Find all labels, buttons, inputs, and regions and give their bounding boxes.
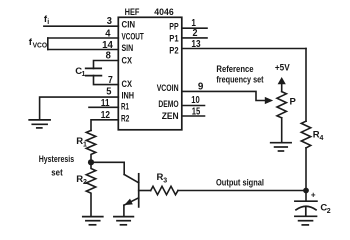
- svg-text:2: 2: [327, 208, 331, 215]
- label C1: [75, 66, 85, 78]
- svg-text:2: 2: [193, 28, 198, 39]
- svg-text:11: 11: [101, 98, 110, 109]
- svg-text:DEMO: DEMO: [158, 98, 178, 109]
- svg-text:7: 7: [108, 75, 113, 86]
- svg-text:P: P: [290, 97, 297, 108]
- svg-text:P2: P2: [169, 44, 178, 55]
- wire R4 to output node: [305, 148, 307, 191]
- svg-text:PP: PP: [169, 20, 178, 31]
- svg-text:VCOUT: VCOUT: [122, 30, 144, 41]
- node fVCO label: [29, 37, 48, 49]
- label C2: [320, 203, 330, 215]
- svg-text:set: set: [51, 167, 63, 178]
- node output junction: [303, 188, 309, 194]
- potentiometer P: [277, 92, 286, 118]
- label Reference frequency set: [216, 64, 264, 86]
- svg-text:P1: P1: [169, 33, 178, 44]
- ground (R2): [83, 217, 103, 225]
- svg-text:Hysteresis: Hysteresis: [39, 154, 74, 165]
- svg-text:8: 8: [106, 51, 112, 62]
- svg-text:+5V: +5V: [275, 62, 290, 73]
- svg-text:4046: 4046: [154, 7, 173, 18]
- svg-text:+: +: [311, 191, 316, 200]
- label R2: [76, 174, 87, 186]
- svg-text:2: 2: [83, 179, 87, 186]
- resistor R3: [151, 186, 178, 194]
- svg-text:4: 4: [105, 28, 111, 39]
- svg-text:i: i: [47, 19, 49, 26]
- svg-text:R1: R1: [121, 100, 129, 111]
- resistor R4: [301, 121, 310, 148]
- svg-text:R2: R2: [121, 113, 129, 124]
- wire U1 pin 5 INH to ground: [40, 97, 119, 120]
- U1 pin 15 ZEN stub: [182, 115, 205, 117]
- wire right rail upper: [305, 49, 307, 122]
- wire junction to transistor collector: [91, 162, 124, 174]
- ground (C2): [295, 216, 317, 225]
- capacitor C1: [86, 68, 102, 75]
- svg-text:ZEN: ZEN: [162, 110, 179, 121]
- label Hysteresis set: [39, 154, 74, 179]
- ground (Q1 emitter): [114, 217, 133, 225]
- svg-text:frequency set: frequency set: [216, 75, 264, 86]
- wire fVCO loop to U1 pin 14 SIN: [48, 49, 119, 51]
- transistor Q1: [124, 174, 139, 207]
- svg-text:CX: CX: [122, 78, 133, 89]
- wire U1 pin 4 VCOUT to fVCO loop: [48, 37, 119, 39]
- U1 pin 2 P1 stub: [182, 37, 207, 39]
- IC U1 HEF4046 body: [118, 17, 182, 130]
- wire node to C2: [305, 191, 307, 202]
- svg-text:5: 5: [106, 87, 112, 98]
- svg-text:Output signal: Output signal: [216, 177, 264, 188]
- svg-text:HEF: HEF: [125, 7, 140, 18]
- U1 pin 10 DEMO stub: [182, 105, 205, 107]
- svg-text:3: 3: [163, 177, 167, 184]
- capacitor C2: [295, 201, 317, 216]
- svg-text:12: 12: [101, 110, 111, 121]
- wire Q1 base lead: [139, 190, 151, 192]
- U1 pin 1 PP stub: [182, 27, 207, 29]
- label R4: [313, 130, 324, 142]
- svg-text:Reference: Reference: [216, 64, 253, 75]
- resistor R1: [86, 130, 95, 159]
- label R3: [157, 172, 168, 184]
- svg-text:14: 14: [102, 40, 113, 51]
- svg-text:CIN: CIN: [122, 19, 136, 30]
- wire output signal: [178, 190, 306, 192]
- IC title HEF 4046: [125, 7, 174, 18]
- ground (INH input): [29, 120, 50, 128]
- node hysteresis junction: [88, 159, 94, 165]
- label R1: [76, 136, 87, 148]
- svg-text:3: 3: [107, 16, 113, 27]
- wire U1 pin 11 R1 stub: [89, 106, 118, 108]
- wire U1 pin 13 P2 to right rail: [182, 48, 306, 50]
- svg-text:1: 1: [82, 71, 86, 78]
- svg-text:10: 10: [191, 95, 200, 106]
- svg-text:VCO: VCO: [33, 42, 48, 49]
- svg-text:CX: CX: [122, 55, 133, 66]
- svg-text:9: 9: [198, 81, 204, 92]
- wire fi input to U1 pin 3: [44, 25, 118, 27]
- wire C1 to U1 pin 7: [94, 76, 119, 85]
- wiper arrowhead: [265, 97, 273, 104]
- +5V supply arrow: [278, 77, 286, 92]
- svg-text:13: 13: [191, 39, 201, 50]
- node fi label: [44, 14, 49, 26]
- wire pot to ground: [281, 118, 283, 143]
- svg-text:4: 4: [320, 135, 324, 142]
- svg-text:SIN: SIN: [122, 42, 134, 53]
- wire U1 pin 8 CX stub to C1: [94, 61, 119, 69]
- wire fVCO loop vertical join: [47, 38, 49, 50]
- wire U1 pin 12 R2 down to resistor R1: [91, 120, 118, 131]
- wire collector diagonal: [124, 175, 139, 183]
- svg-text:1: 1: [83, 141, 87, 148]
- ground (pot): [271, 143, 291, 151]
- svg-text:VCOIN: VCOIN: [157, 82, 179, 93]
- resistor R2: [86, 165, 95, 216]
- wire emitter to ground: [123, 205, 125, 216]
- svg-text:15: 15: [192, 106, 201, 117]
- wire U1 pin 9 VCOIN to pot wiper: [182, 91, 266, 100]
- svg-text:INH: INH: [122, 89, 135, 100]
